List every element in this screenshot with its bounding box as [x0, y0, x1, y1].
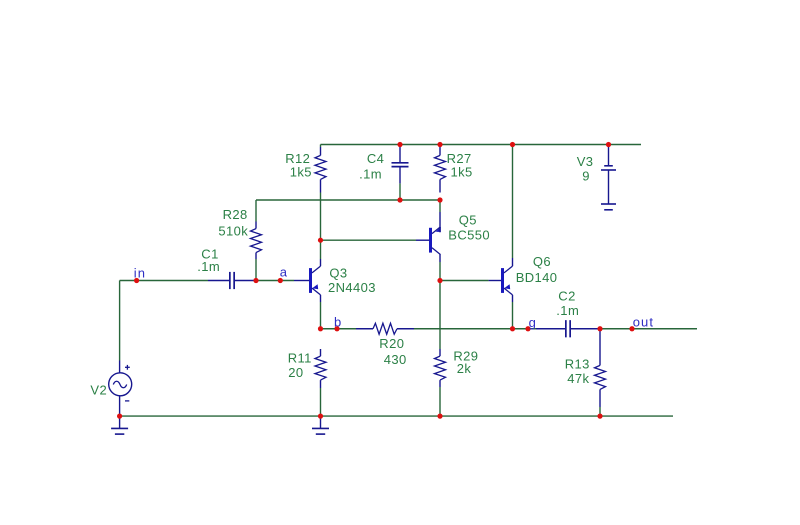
svg-text:C4: C4: [367, 151, 384, 166]
wire b row: [321, 328, 357, 330]
node out junction: [629, 326, 634, 331]
junction R27 top: [437, 142, 442, 147]
capacitor C2: [536, 320, 600, 337]
wire top rail: [321, 144, 642, 146]
svg-text:R28: R28: [223, 207, 248, 222]
svg-text:R20: R20: [379, 336, 404, 351]
wire R28 top to row2: [255, 200, 257, 222]
junction C4 bottom: [397, 197, 402, 202]
wire x320 row2 to Q3: [320, 200, 322, 259]
wire R27top: [439, 145, 441, 148]
wire Q6 emitter down: [512, 302, 514, 329]
junction C1-R28: [253, 278, 258, 283]
svg-text:C2: C2: [558, 288, 575, 303]
svg-text:.1m: .1m: [359, 167, 382, 182]
wire R13 bottom: [599, 407, 601, 416]
junction R12-Q5base: [318, 238, 323, 243]
wire Q3 base lead: [294, 280, 309, 282]
wire Q5 emitter lead: [439, 212, 441, 232]
wire R12top: [320, 145, 322, 148]
wire Q6 collector up: [512, 145, 514, 259]
resistor R29: [435, 349, 446, 387]
node a junction: [278, 278, 283, 283]
svg-text:1k5: 1k5: [451, 164, 473, 179]
wire Q5 base lead: [416, 239, 429, 241]
resistor R27: [435, 147, 446, 193]
svg-text:V3: V3: [577, 154, 594, 169]
transistor Q6 BD140: [501, 266, 513, 295]
svg-text:20: 20: [288, 365, 303, 380]
svg-text:V2: V2: [90, 382, 107, 397]
ground R11: [312, 416, 329, 434]
wire g row: [513, 328, 537, 330]
wire Q3 emitter down: [320, 302, 322, 329]
svg-text:R13: R13: [565, 356, 590, 371]
capacitor C4: [392, 146, 409, 183]
wire R12 bottom to row2: [320, 193, 322, 201]
svg-text:2N4403: 2N4403: [328, 280, 376, 295]
transistor Q5 BC550: [429, 227, 441, 255]
svg-text:a: a: [280, 265, 288, 280]
wire R29 bottom: [439, 387, 441, 416]
wire x440 down to R29: [439, 281, 441, 350]
wire b row right: [414, 328, 513, 330]
svg-text:9: 9: [582, 169, 590, 184]
svg-text:Q6: Q6: [533, 254, 551, 269]
wire C4 bottom: [399, 183, 401, 200]
junction Q5-Q6 base: [437, 278, 442, 283]
svg-text:Q3: Q3: [329, 266, 347, 281]
wire out row: [600, 328, 697, 330]
wire Q6 emitter lead: [512, 295, 514, 302]
wire Q6 base lead: [489, 280, 502, 282]
wire Q6 collector lead: [512, 258, 514, 266]
svg-text:510k: 510k: [218, 224, 248, 239]
resistor R12: [315, 147, 326, 193]
wire input row mid: [256, 280, 294, 282]
svg-text:out: out: [633, 314, 654, 329]
junction Q6 emitter: [510, 326, 515, 331]
svg-text:.1m: .1m: [197, 259, 220, 274]
junction R29 bottom: [437, 414, 442, 419]
voltage source V2: [109, 361, 132, 417]
svg-text:1k5: 1k5: [290, 164, 312, 179]
svg-text:BD140: BD140: [516, 270, 558, 285]
node in junction: [134, 278, 139, 283]
svg-text:430: 430: [384, 352, 407, 367]
junction R11 bottom: [318, 414, 323, 419]
wire Q5 collector down: [439, 262, 441, 281]
capacitor C1: [208, 272, 256, 289]
resistor R13: [595, 330, 606, 407]
wire Q3 emitter lead: [320, 295, 322, 302]
junction V3 top: [606, 142, 611, 147]
wire ground rail: [120, 415, 673, 417]
wire R11 bottom: [320, 388, 322, 416]
node b junction1: [318, 326, 323, 331]
wire Q5 emitter up: [439, 200, 441, 212]
svg-text:R11: R11: [288, 350, 312, 365]
junction Q6 collector top: [510, 142, 515, 147]
wire V2 top: [119, 281, 121, 361]
junction V2 bottom: [117, 414, 122, 419]
junction R13 bottom: [597, 414, 602, 419]
junction C4 top: [397, 142, 402, 147]
wire Q5 collector lead: [439, 254, 441, 262]
junction C2-R13: [597, 326, 602, 331]
wire row2: [256, 199, 440, 201]
node g junction: [525, 326, 530, 331]
resistor R11: [315, 349, 326, 388]
wire Q5 base: [321, 239, 417, 241]
junction R27 bottom: [437, 197, 442, 202]
node b junction2: [334, 326, 339, 331]
resistor R20: [356, 323, 414, 334]
svg-text:BC550: BC550: [448, 228, 490, 243]
svg-text:b: b: [334, 315, 342, 330]
wire Q3 collector lead: [320, 259, 322, 266]
resistor R28: [251, 222, 262, 260]
svg-text:47k: 47k: [567, 371, 589, 386]
svg-text:in: in: [134, 265, 146, 280]
wire input row left: [120, 280, 208, 282]
wire Q6 base: [440, 280, 489, 282]
svg-text:.1m: .1m: [556, 303, 579, 318]
transistor Q3 2N4403: [309, 266, 321, 295]
ground V2: [111, 416, 128, 434]
svg-text:g: g: [529, 315, 537, 330]
wire R28 bottom: [255, 259, 257, 281]
battery V3: [601, 146, 616, 210]
svg-text:Q5: Q5: [459, 213, 477, 228]
svg-text:2k: 2k: [457, 361, 472, 376]
